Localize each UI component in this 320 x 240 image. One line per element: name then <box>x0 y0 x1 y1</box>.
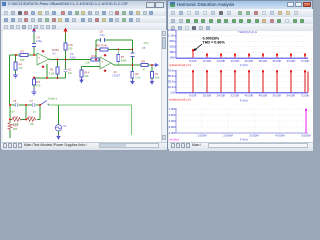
capacitor C2 <box>64 68 73 76</box>
panel2 x title <box>240 99 248 103</box>
svg-text:C4: C4 <box>37 36 41 40</box>
svg-text:+: + <box>102 59 104 63</box>
svg-text:4.000M: 4.000M <box>275 134 285 138</box>
power Vbias arrow at C4 <box>33 29 35 34</box>
svg-text:R16: R16 <box>92 54 97 58</box>
resistor R9 <box>131 72 141 80</box>
resistor R2 <box>20 50 28 63</box>
toolbar row3 <box>169 24 313 32</box>
svg-text:64.00K: 64.00K <box>287 93 296 97</box>
ground below R3 <box>32 88 37 95</box>
panel1 grid <box>176 30 308 52</box>
resistor R14 <box>80 70 90 78</box>
svg-text:860u: 860u <box>170 39 176 43</box>
svg-text:56.00K: 56.00K <box>273 59 282 63</box>
svg-text:C2: C2 <box>68 68 72 72</box>
wire RL branch <box>151 65 153 80</box>
title bar <box>168 1 312 9</box>
svg-text:4.00n: 4.00n <box>70 56 77 60</box>
svg-text:140u: 140u <box>170 56 176 60</box>
svg-text:16.00K: 16.00K <box>203 59 212 63</box>
resistor R11 zigzag <box>12 115 21 126</box>
grid text Godot k <box>48 97 58 101</box>
svg-text:600k: 600k <box>121 59 127 63</box>
svg-text:R4: R4 <box>19 63 23 67</box>
resistor R15 <box>64 43 74 51</box>
svg-text:-0.500: -0.500 <box>168 125 176 129</box>
panel1 x title <box>240 63 248 67</box>
capacitor C8 <box>100 30 106 43</box>
svg-text:32.00K: 32.00K <box>231 59 240 63</box>
svg-text:R8: R8 <box>142 60 146 64</box>
resistor R4 <box>14 62 23 70</box>
svg-text:904: 904 <box>13 127 18 131</box>
svg-text:5.000M: 5.000M <box>301 134 311 138</box>
wire C4 branch <box>33 33 35 55</box>
svg-text:50.0m: 50.0m <box>168 74 176 78</box>
panel3 x labels <box>197 134 311 138</box>
wire input net to X1 <box>10 54 38 56</box>
svg-text:LF157: LF157 <box>113 74 121 78</box>
svg-text:R11: R11 <box>14 115 19 119</box>
wire C2 branch <box>65 60 67 79</box>
status / tab bar <box>169 142 313 151</box>
panel2 grid <box>176 71 308 88</box>
svg-text:40.00K: 40.00K <box>245 93 254 97</box>
panel3 y labels <box>168 107 176 135</box>
op-amp X2 <box>100 57 120 78</box>
svg-text:100: 100 <box>155 76 160 80</box>
output probe arrow <box>153 64 159 67</box>
wire R3 branch <box>33 78 35 89</box>
THD annotation <box>194 37 226 52</box>
svg-text:1.0n: 1.0n <box>170 91 176 95</box>
wire feedback right vertical with C5 <box>131 40 133 65</box>
svg-text:+: + <box>38 55 40 59</box>
svg-text:16.00K: 16.00K <box>203 93 212 97</box>
svg-text:2.2k: 2.2k <box>135 76 141 80</box>
wire V1 top <box>58 105 60 125</box>
ground below R4 <box>13 73 18 78</box>
svg-text:3.000M: 3.000M <box>249 134 259 138</box>
resistor R8 <box>141 60 148 72</box>
ground below RL <box>151 80 154 85</box>
power pin X2 down <box>104 70 106 73</box>
svg-text:56.00K: 56.00K <box>273 93 282 97</box>
toolbar row3 <box>2 23 166 31</box>
panel2 y labels <box>168 69 176 95</box>
svg-text:48.00K: 48.00K <box>259 59 268 63</box>
panel1 trace label <box>169 63 191 67</box>
wire lower rail <box>34 77 66 79</box>
capacitor C5 <box>130 41 149 57</box>
svg-text:7.1M: 7.1M <box>49 72 55 76</box>
svg-text:1.000: 1.000 <box>169 107 176 111</box>
svg-text:v(buffer): v(buffer) <box>169 138 179 142</box>
svg-text:70k: 70k <box>30 122 35 126</box>
svg-text:R5: R5 <box>50 68 54 72</box>
panel3 grid <box>176 108 308 133</box>
panel1 title <box>238 30 257 34</box>
svg-text:48.00K: 48.00K <box>259 93 268 97</box>
svg-text:R2: R2 <box>21 50 25 54</box>
wire left rail <box>9 55 11 105</box>
wire R4 branch <box>15 55 17 73</box>
value label C3 floating <box>70 52 77 60</box>
resistor R12 zigzag <box>27 115 36 126</box>
svg-text:1.10m: 1.10m <box>168 34 176 38</box>
wire bottom rail upper <box>10 104 41 106</box>
svg-text:10.0m: 10.0m <box>168 85 176 89</box>
capacitor C4 <box>32 36 42 48</box>
svg-text:47: 47 <box>143 68 146 72</box>
svg-text:C3: C3 <box>70 52 74 56</box>
wire switch to loop <box>48 105 132 135</box>
op-amp X1 <box>37 48 59 65</box>
switch S1 <box>40 101 49 106</box>
svg-text:R7: R7 <box>121 55 125 59</box>
wire bias branch R15 <box>65 33 67 60</box>
bottom tab bar <box>2 142 167 150</box>
ground below V1 <box>57 135 60 140</box>
wire R7 branch <box>117 50 119 66</box>
svg-text:1n: 1n <box>33 110 36 114</box>
svg-text:72.00K: 72.00K <box>301 93 310 97</box>
svg-text:R14: R14 <box>84 71 89 75</box>
schematic white area <box>3 30 161 142</box>
wire X1 output net <box>49 59 100 61</box>
title bar <box>1 1 166 9</box>
svg-text:70.0m: 70.0m <box>168 69 176 73</box>
junction nodes <box>9 29 153 121</box>
panel1 stems <box>193 51 305 58</box>
svg-text:TL081: TL081 <box>52 48 60 52</box>
capacitor C6 <box>10 99 18 114</box>
svg-text:F (Hz): F (Hz) <box>240 138 248 142</box>
svg-text:R9: R9 <box>135 72 139 76</box>
wire X2 output net <box>111 63 153 65</box>
resistor RL <box>151 72 160 80</box>
panel1 y labels <box>168 28 176 60</box>
svg-text:−: − <box>38 61 40 65</box>
svg-text:30.0m: 30.0m <box>168 80 176 84</box>
svg-text:620u: 620u <box>170 45 176 49</box>
svg-text:270: 270 <box>36 84 41 88</box>
svg-text:R3: R3 <box>37 80 41 84</box>
power pin X1 down <box>42 66 44 69</box>
svg-text:10n: 10n <box>68 71 73 75</box>
svg-text:C8: C8 <box>100 30 104 34</box>
svg-text:X2: X2 <box>114 70 118 74</box>
wire bottom verticals <box>10 105 40 120</box>
svg-text:v(distortion)(f,c,b): v(distortion)(f,c,b) <box>169 98 191 102</box>
resistor R3 <box>33 79 41 88</box>
wire bottom rail lower <box>10 119 40 121</box>
resistor R16 <box>85 54 99 65</box>
svg-text:50k: 50k <box>84 74 89 78</box>
svg-text:64.00K: 64.00K <box>287 59 296 63</box>
svg-text:72.00K: 72.00K <box>301 59 310 63</box>
resistor R6 <box>97 44 109 51</box>
svg-text:RL: RL <box>155 72 159 76</box>
svg-text:1.000M: 1.000M <box>197 134 207 138</box>
power V+ arrow R15 <box>64 29 66 34</box>
svg-text:910: 910 <box>68 47 73 51</box>
svg-text:F (Hz): F (Hz) <box>240 63 248 67</box>
svg-text:−: − <box>102 65 104 69</box>
vertical scrollbar <box>161 30 167 142</box>
toolbar row1 <box>169 9 313 18</box>
svg-text:X1: X1 <box>53 52 57 56</box>
svg-text:R12: R12 <box>29 115 34 119</box>
wire feedback left vertical <box>95 40 97 60</box>
wire feedback lower R6 <box>96 49 132 51</box>
panel2 x labels <box>189 93 309 97</box>
panel2 stem markers <box>192 70 306 72</box>
toolbar row1 <box>2 9 166 17</box>
panel2 trace label <box>169 98 191 102</box>
panel1 x labels <box>189 59 309 63</box>
wire R10 branch <box>9 120 11 139</box>
svg-text:V1: V1 <box>63 124 67 128</box>
svg-text:C6: C6 <box>13 99 17 103</box>
svg-text:3.6n: 3.6n <box>10 110 16 114</box>
panel1 stem markers <box>192 49 306 55</box>
panel3 magenta stem <box>305 109 307 133</box>
resistor R5 <box>49 67 59 76</box>
panel3 x title <box>240 138 248 142</box>
panel2 stems <box>193 72 308 93</box>
svg-text:2.2k: 2.2k <box>68 43 74 47</box>
power pin X1 up <box>42 50 44 53</box>
ground below R9 <box>131 80 134 85</box>
svg-text:C7: C7 <box>30 99 34 103</box>
svg-text:2.0k: 2.0k <box>85 61 91 65</box>
wire R9 branch <box>131 65 133 80</box>
panel1 axis <box>176 30 308 58</box>
resistor R10 zigzag <box>8 123 18 132</box>
svg-text:0.500: 0.500 <box>169 113 176 117</box>
svg-text:0.000: 0.000 <box>169 119 176 123</box>
plot white area <box>169 31 313 142</box>
svg-text:47k: 47k <box>19 66 24 70</box>
svg-text:THD(V(2),2) A: THD(V(2),2) A <box>238 30 257 34</box>
svg-text:32.00K: 32.00K <box>231 93 240 97</box>
power pin X2 up <box>104 54 106 57</box>
ground below R14 <box>80 77 83 83</box>
toolbar row2 <box>169 17 313 25</box>
svg-text:7.0p: 7.0p <box>100 33 106 37</box>
svg-text:4.5n: 4.5n <box>144 41 150 45</box>
svg-text:2.000M: 2.000M <box>223 134 233 138</box>
svg-text:130p: 130p <box>36 39 42 43</box>
panel3 frame <box>176 108 308 133</box>
svg-text:F (Hz): F (Hz) <box>240 99 248 103</box>
panel2 axis <box>176 70 308 93</box>
svg-text:400: 400 <box>20 58 25 62</box>
svg-text:Godot k: Godot k <box>48 97 58 101</box>
svg-text:C5: C5 <box>142 46 146 50</box>
svg-text:-1.000: -1.000 <box>168 131 176 135</box>
svg-text:v(distortion)(f,c,b): v(distortion)(f,c,b) <box>169 63 191 67</box>
svg-text:380u: 380u <box>170 50 176 54</box>
panel3 trace label <box>169 138 179 142</box>
svg-text:24.00K: 24.00K <box>217 93 226 97</box>
resistor R7 <box>117 55 127 63</box>
svg-text:R6 75.4k: R6 75.4k <box>97 44 108 48</box>
svg-text:24.00K: 24.00K <box>217 59 226 63</box>
wire R5 branch <box>57 60 59 79</box>
sine source V1 <box>55 124 66 131</box>
svg-text:THD = 0.66%: THD = 0.66% <box>203 41 226 45</box>
wire X2 plus input <box>82 67 101 71</box>
wire feedback upper C8 <box>96 39 132 41</box>
wire X1 feedback vertical <box>46 64 48 78</box>
toolbar row2 <box>2 16 166 24</box>
wire V1 bottom <box>58 131 60 135</box>
svg-text:R10: R10 <box>13 124 18 128</box>
capacitor C7 <box>30 99 37 114</box>
svg-text:1.34m: 1.34m <box>168 28 176 32</box>
